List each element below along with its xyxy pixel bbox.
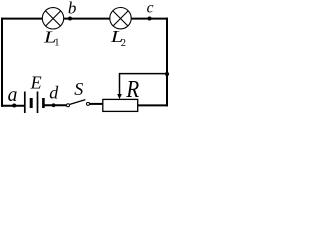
svg-text:b: b [68, 0, 77, 18]
svg-text:R: R [125, 75, 139, 102]
svg-text:1: 1 [54, 37, 59, 48]
svg-text:d: d [49, 82, 59, 102]
svg-text:a: a [8, 85, 18, 106]
svg-text:2: 2 [121, 38, 126, 49]
svg-text:S: S [74, 79, 83, 99]
svg-text:E: E [30, 73, 42, 93]
svg-text:c: c [147, 0, 154, 16]
